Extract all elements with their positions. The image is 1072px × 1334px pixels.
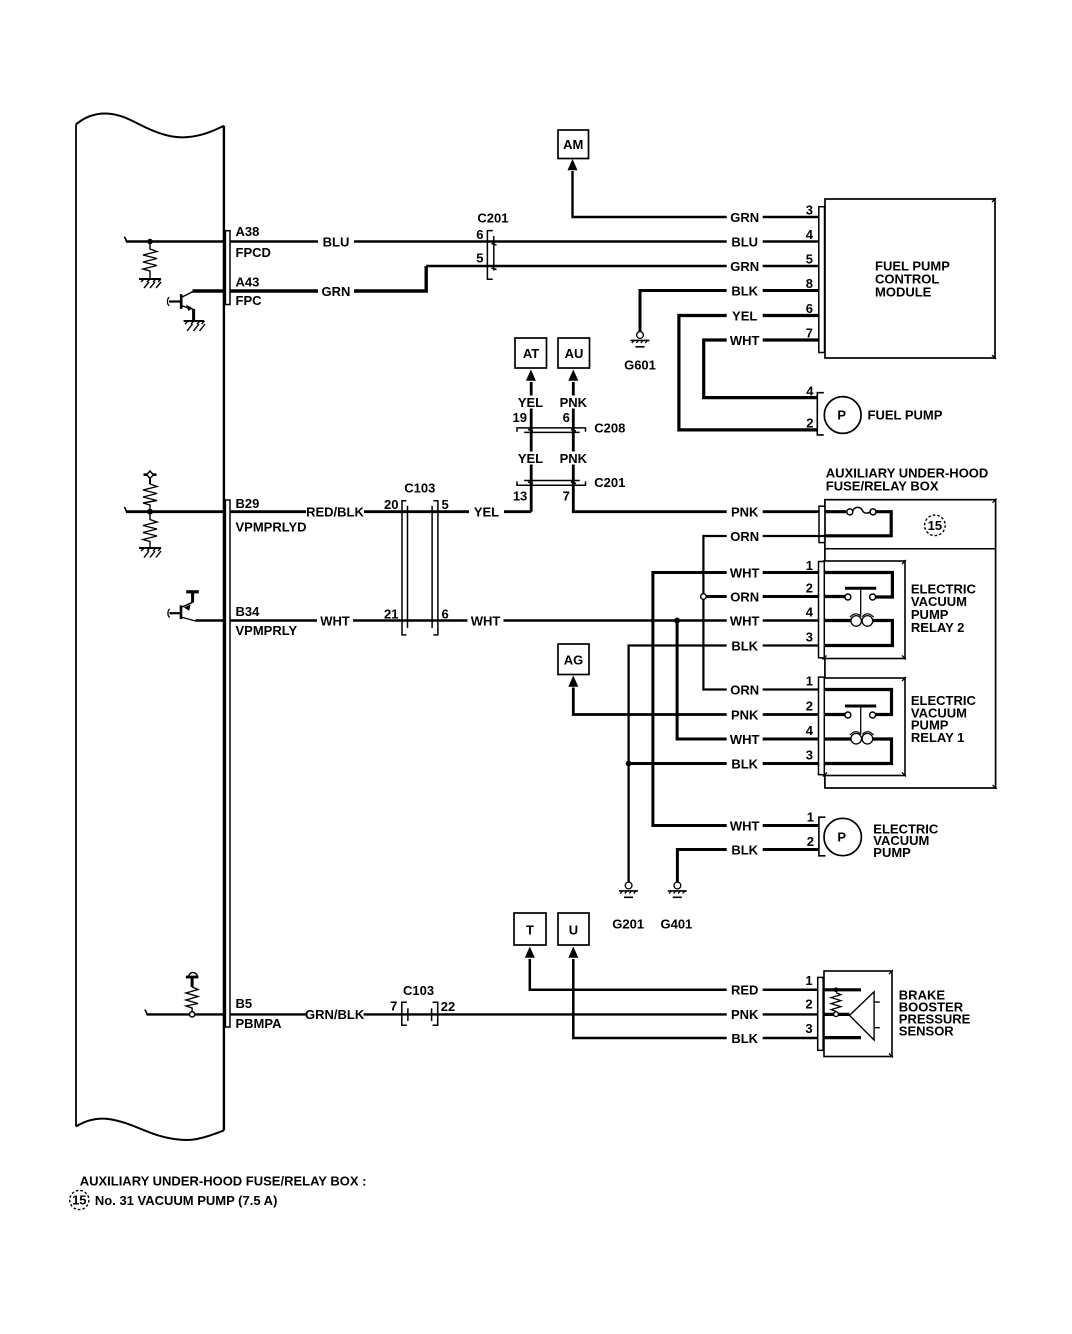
off-page arrow to T [525,947,535,958]
wire B34 internal [196,619,230,621]
wire WHT branch B34 to relay1 pin4 [677,621,818,740]
wire ORN fuse out to relay1 pin1 [703,536,825,690]
wire label WHT (B34) [317,613,353,628]
resistor (lower divider) [143,515,157,548]
wire label ORN (relay1 pin1) [727,682,763,697]
svg-text:FUSE/RELAY BOX: FUSE/RELAY BOX [826,479,939,494]
svg-text:P: P [837,407,846,422]
transistor Q (FPC driver) [167,292,193,322]
svg-text:A38: A38 [236,224,260,239]
svg-text:A43: A43 [236,274,260,289]
svg-text:RED/BLK: RED/BLK [306,505,364,520]
power symbol (PBMPA pull-up) [186,973,199,988]
svg-text:C208: C208 [594,420,625,435]
svg-text:7: 7 [806,326,813,341]
wire label PNK (fuse in) [727,505,763,520]
node ORN junction (open) [701,594,707,600]
wire BLK relay2 pin3 to G201 [629,646,819,883]
svg-text:C201: C201 [594,475,625,490]
off-page box AU [558,338,590,368]
relay1 coil [850,732,874,744]
wire B5 internal [145,1010,229,1015]
node B29 junction [147,509,153,515]
off-page box AM [558,130,589,159]
wire label BLU (pin4) [727,234,763,249]
svg-text:19: 19 [513,410,527,425]
svg-text:21: 21 [384,607,398,622]
relay U2 box: electric vacuum pump relay 2 [824,561,906,659]
svg-text:PNK: PNK [731,1007,759,1022]
wire right edge [223,126,225,1131]
svg-text:BLK: BLK [731,1031,758,1046]
svg-text:PUMP: PUMP [873,845,911,860]
electric vacuum pump P2 [819,817,826,856]
svg-text:PBMPA: PBMPA [236,1016,283,1031]
sensor internal wires [824,990,861,1038]
svg-text:3: 3 [806,748,813,763]
svg-text:6: 6 [476,227,483,242]
svg-text:WHT: WHT [730,565,760,580]
resistor (FPCD pull-down) [143,244,157,278]
resistor (upper divider) [143,484,157,509]
svg-text:GRN: GRN [322,284,351,299]
svg-text:C201: C201 [477,211,508,226]
relay U3 box: electric vacuum pump relay 1 [824,678,905,776]
wire BLK module pin 8 to G601 [640,291,819,332]
wire label WHT (after C103) [468,613,504,628]
svg-text:G401: G401 [660,916,692,931]
svg-text:PNK: PNK [560,451,588,466]
svg-text:5: 5 [806,252,813,267]
svg-text:6: 6 [563,410,570,425]
svg-text:VPMPRLY: VPMPRLY [236,623,298,638]
wire label PNK (relay1 pin2) [727,707,763,722]
wire label RED/BLK (B29) [306,505,364,520]
svg-text:WHT: WHT [730,613,760,628]
wire label YEL (C208-C201) [513,451,548,466]
svg-text:8: 8 [806,276,813,291]
off-page arrow to AM [568,159,578,170]
ground (FPCD internal) [139,279,161,288]
svg-text:YEL: YEL [474,505,499,520]
off-page box AT [515,338,547,368]
svg-text:P: P [837,829,846,844]
svg-text:YEL: YEL [732,308,757,323]
svg-text:VPMPRLYD: VPMPRLYD [236,519,307,534]
svg-text:PNK: PNK [560,395,588,410]
svg-text:GRN/BLK: GRN/BLK [305,1007,365,1022]
wire label YEL (above C208) [513,395,548,410]
svg-text:7: 7 [390,999,397,1014]
svg-text:ORN: ORN [730,529,759,544]
node WHT junction [674,618,680,624]
wire label WHT (relay2 pin1) [727,565,763,580]
brake booster pressure sensor [824,971,892,1057]
power bar (VPMPRLY supply) [186,592,199,603]
svg-text:BLK: BLK [731,842,758,857]
svg-text:C103: C103 [404,481,435,496]
svg-text:2: 2 [806,416,813,431]
wire PNK relay1 pin2 to AG [573,688,818,715]
svg-text:RELAY 1: RELAY 1 [911,730,964,745]
svg-text:BLU: BLU [323,234,350,249]
wire label PNK (above C208) [556,395,591,410]
svg-text:1: 1 [807,810,814,825]
wire left edge [75,124,77,1126]
ground G601 [631,332,650,347]
wire YEL module pin 6 to fuel pump pin 2 [679,316,819,430]
off-page arrow to AG [568,676,578,687]
connector bracket (fuse rows) [819,506,825,542]
wire label BLK (relay1 pin3) [727,756,763,771]
svg-text:GRN: GRN [730,210,759,225]
wire RED sensor pin1 to T [530,959,818,990]
svg-text:B29: B29 [236,496,260,511]
wire top wavy edge [76,114,224,138]
wire label ORN (fuse out) [727,529,763,544]
relay2 coil [850,614,874,626]
svg-text:YEL: YEL [518,395,543,410]
svg-text:WHT: WHT [730,818,760,833]
resistor (PBMPA pull-up) [186,987,198,1012]
off-page box U [558,913,589,945]
svg-text:BLK: BLK [731,638,758,653]
wire label GRN (pin3) [727,210,763,225]
wire label GRN/BLK (B5) [305,1007,365,1022]
power symbol (VPMPRLYD supply) [144,471,157,484]
ground G401 [668,882,687,897]
node open terminal on B5 wire [190,1012,195,1017]
svg-text:7: 7 [563,488,570,503]
connector C103 (7/22) [402,1002,438,1025]
fuel pump control module box U1 [825,199,995,358]
svg-text:FPC: FPC [236,293,263,308]
svg-text:2: 2 [807,834,814,849]
wire A38 internal [124,237,229,242]
wire label YEL (after C103) [469,505,504,520]
svg-text:BLK: BLK [731,283,758,298]
auxiliary under-hood fuse/relay box [825,500,996,788]
svg-text:BLK: BLK [731,756,758,771]
svg-text:22: 22 [441,999,455,1014]
svg-text:FPCD: FPCD [236,245,271,260]
svg-text:6: 6 [442,607,449,622]
wire WHT relay2 pin1 down to vacuum pump pin1 [653,573,819,826]
wire GRN to module pin 5 [426,265,819,267]
wire GRN A43 row [230,266,426,291]
svg-text:ORN: ORN [730,682,759,697]
svg-text:AUXILIARY UNDER-HOOD FUSE/RELA: AUXILIARY UNDER-HOOD FUSE/RELAY BOX : [80,1174,367,1189]
svg-text:3: 3 [806,203,813,218]
connector C208 (19/6) [517,428,586,433]
svg-text:MODULE: MODULE [875,285,932,300]
svg-text:AU: AU [565,346,584,361]
wire WHT module pin 7 to fuel pump pin 4 [704,340,819,398]
svg-text:T: T [526,923,534,938]
wire label WHT (relay2 pin4) [727,613,763,628]
svg-text:SENSOR: SENSOR [899,1024,955,1039]
wire label BLK (sensor pin3) [727,1031,763,1046]
wire label WHT (pin7) [727,333,763,348]
sensor amplifier triangle [850,992,880,1040]
wire ORN branch to relay2 pin2 [703,595,818,598]
connector C201 (6/5 rows) [487,231,496,280]
wire BLU A38 row to C201 to module pin 4 [230,240,819,242]
svg-text:13: 13 [513,488,527,503]
wire BLK vacuum pump pin2 to G401 [677,850,819,883]
connector C103 (20/21 to 5/6) [402,501,438,635]
ground (divider bottom) [139,548,161,558]
connector bracket (relay2) [819,562,825,658]
wire label WHT (vac pump pin1) [727,818,763,833]
node sensor resistor top [834,987,839,992]
svg-text:B34: B34 [236,604,261,619]
connector bracket (sensor) [818,977,823,1050]
node sensor resistor bottom (open) [834,1012,839,1017]
connector bracket (module pins 3-7) [819,207,825,353]
svg-text:1: 1 [806,674,813,689]
svg-text:2: 2 [805,997,812,1012]
svg-text:PNK: PNK [731,707,759,722]
off-page box T [514,913,546,945]
svg-text:5: 5 [476,251,483,266]
svg-text:1: 1 [805,973,812,988]
wire B29 internal [124,507,229,512]
svg-text:U: U [569,923,578,938]
svg-text:ORN: ORN [730,589,759,604]
wire bottom wavy edge [76,1119,224,1140]
svg-text:RED: RED [731,983,758,998]
fuse number 15 badge [925,515,946,536]
sensor internal resistor [831,993,841,1012]
wire BLK sensor pin3 to U [573,959,817,1038]
svg-text:WHT: WHT [730,333,760,348]
svg-text:FUEL PUMP: FUEL PUMP [868,408,943,423]
svg-text:G601: G601 [624,358,656,373]
svg-text:WHT: WHT [471,613,501,628]
connector bracket (relay1) [819,677,825,775]
svg-text:5: 5 [442,497,449,512]
wire label ORN (relay2 pin2) [727,589,763,604]
wire label YEL (pin6) [727,308,763,323]
wire WHT B34 row through C103 to relay rows [230,619,819,622]
wire label BLU (A38) [318,234,354,249]
wire label GRN (pin5) [727,259,763,274]
transistor Q (VPMPRLY driver, PNP) [168,602,196,621]
svg-text:GRN: GRN [730,259,759,274]
off-page arrow to AT [526,370,536,381]
footer fuse 15 badge [70,1190,89,1209]
svg-text:WHT: WHT [320,613,350,628]
wire label BLK (pin8) [727,283,763,298]
connector C201 (13/7) [517,481,586,486]
svg-text:4: 4 [806,383,814,398]
corner marks (raster artifacts on box corners) [823,198,997,1058]
svg-text:PNK: PNK [731,505,759,520]
off-page arrow to U [568,947,578,958]
wire GRN/BLK B5 row to sensor PNK row [230,1013,818,1015]
svg-text:4: 4 [806,723,814,738]
wire PNK vertical from C201 down to fuse row, up to AU [573,382,819,512]
svg-text:C103: C103 [403,983,434,998]
off-page arrow to AU [568,370,578,381]
svg-text:WHT: WHT [730,732,760,747]
relay1 contact circuit [824,690,892,734]
node BLK junction [626,761,632,767]
wire label PNK (C208-C201) [556,451,591,466]
fuse No.31 circuit [825,507,891,535]
svg-text:15: 15 [928,518,942,533]
svg-text:15: 15 [72,1193,86,1208]
svg-text:BLU: BLU [731,234,758,249]
ground (FPC transistor emitter) [184,321,205,331]
node A38 junction [147,239,153,245]
svg-text:YEL: YEL [518,451,543,466]
wire label GRN (A43) [318,284,354,299]
wire label BLK (relay2 pin3) [727,638,763,653]
off-page box AG [558,644,589,675]
svg-text:6: 6 [806,301,813,316]
fuel pump P1 [817,393,824,435]
wire label BLK (vac pump pin2) [727,842,763,857]
connector bracket B (module pins B29/B34/B5) [225,500,230,1027]
wire RED/BLK B29 row through C103 [230,510,531,513]
wire YEL vertical up to AT [530,382,533,512]
svg-text:4: 4 [806,605,814,620]
svg-text:1: 1 [806,558,813,573]
wire GRN module pin 3 to AM [573,171,819,217]
svg-text:2: 2 [806,581,813,596]
svg-text:AT: AT [523,346,539,361]
svg-text:AM: AM [563,137,583,152]
svg-text:B5: B5 [236,996,253,1011]
svg-text:3: 3 [806,630,813,645]
wire label PNK (sensor pin2) [727,1007,763,1022]
svg-text:No. 31 VACUUM PUMP (7.5 A): No. 31 VACUUM PUMP (7.5 A) [95,1193,278,1208]
svg-text:3: 3 [805,1021,812,1036]
svg-text:2: 2 [806,699,813,714]
ground G201 [619,882,638,897]
svg-text:4: 4 [806,227,814,242]
wire label WHT (relay1 pin4) [727,732,763,747]
wire BLK relay1 pin3 joins [629,762,819,765]
connector bracket A (module pins A38/A43) [225,231,230,305]
svg-text:20: 20 [384,497,398,512]
wire label RED (sensor pin1) [727,983,763,998]
svg-text:RELAY 2: RELAY 2 [911,620,964,635]
svg-text:AG: AG [564,653,584,668]
relay2 contact circuit [824,573,893,616]
wire-harness module band (left) [76,114,224,1140]
svg-text:G201: G201 [612,916,644,931]
wire A43 internal [193,289,230,292]
